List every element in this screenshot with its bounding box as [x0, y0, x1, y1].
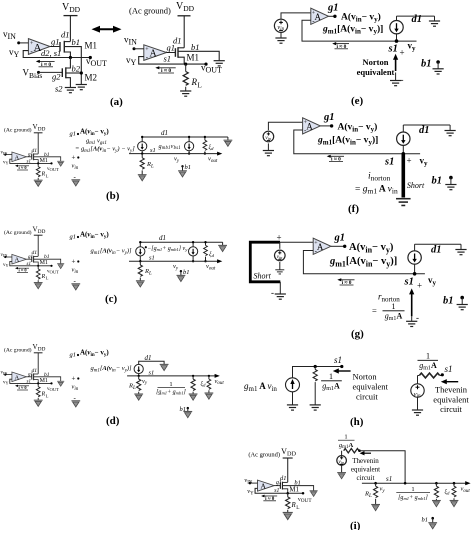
wire resistor to s1 rail — [360, 451, 406, 484]
svg-text:A: A — [306, 121, 313, 131]
M2 transistor — [62, 67, 66, 78]
svg-text:vin: vin — [338, 459, 344, 465]
svg-text:d2, s1: d2, s1 — [41, 48, 61, 58]
cs bottom wire and ground — [292, 392, 294, 405]
svg-text:1: 1 — [169, 381, 172, 388]
svg-text:circuit: circuit — [440, 404, 462, 414]
mini follower circuit — [1, 226, 65, 289]
svg-text:equivalent: equivalent — [351, 466, 380, 474]
svg-text:(i): (i) — [350, 520, 361, 530]
mini follower circuit — [1, 343, 65, 406]
ground below arrow — [395, 73, 397, 81]
VDD supply bar — [64, 15, 78, 17]
svg-text:(b): (b) — [106, 190, 120, 202]
output node dot — [320, 125, 331, 127]
1/(gm1+gmb1) resistor — [192, 375, 194, 377]
svg-text:b1: b1 — [443, 296, 454, 307]
s1 node — [397, 40, 417, 42]
svg-text:= gm1 A vin: = gm1 A vin — [355, 185, 398, 196]
svg-text:g1: g1 — [70, 234, 77, 241]
current source — [408, 251, 421, 264]
source ground — [280, 32, 282, 38]
s1 node dot — [413, 272, 417, 276]
svg-text:d1: d1 — [173, 36, 182, 46]
vin bottom lead and ground — [279, 262, 281, 270]
svg-text:+: + — [72, 375, 76, 383]
RL resistor — [141, 152, 143, 154]
svg-text:Thevenin: Thevenin — [352, 457, 379, 465]
svg-text:i ≈ 0: i ≈ 0 — [342, 280, 352, 286]
s1 node dot — [402, 152, 406, 156]
current source gm1+gmb1 — [192, 242, 194, 247]
feedback wire from minus input to s1 rail — [23, 51, 90, 58]
svg-text:+: + — [145, 47, 149, 53]
svg-text:b1: b1 — [421, 59, 432, 70]
svg-text:s1: s1 — [445, 364, 453, 374]
RL resistor — [138, 375, 140, 377]
gate wire — [50, 46, 60, 48]
svg-text:(g): (g) — [351, 328, 364, 340]
RL resistor — [185, 64, 187, 71]
svg-text:d1: d1 — [61, 30, 70, 40]
i=0 arrow — [339, 279, 355, 281]
b1 node — [431, 517, 434, 520]
svg-text:d1: d1 — [159, 234, 166, 242]
Norton arrow — [337, 370, 351, 372]
svg-text:g1: g1 — [70, 352, 77, 359]
svg-text:d1: d1 — [419, 125, 430, 136]
Norton arrow — [395, 58, 397, 71]
-[gm1+gmb1]vy label — [145, 246, 147, 248]
1/(gm1+gmb1) resistor — [435, 482, 438, 485]
svg-text:s1: s1 — [149, 369, 155, 376]
svg-text:-: - — [271, 288, 274, 298]
M1 transistor — [175, 47, 178, 58]
mini follower circuit — [244, 447, 317, 520]
svg-text:inorton: inorton — [368, 172, 390, 183]
s2 ground — [65, 88, 76, 93]
svg-text:g1: g1 — [70, 131, 77, 138]
d1 rail — [140, 241, 222, 243]
svg-text:s1: s1 — [164, 54, 172, 64]
svg-text:b1: b1 — [191, 42, 200, 52]
i=0 arrow — [334, 43, 350, 45]
svg-text:g1: g1 — [334, 233, 346, 244]
s1 junction dot — [184, 63, 187, 66]
svg-text:i ≈ 0: i ≈ 0 — [331, 157, 341, 163]
svg-text:1: 1 — [426, 352, 430, 361]
node dots — [314, 365, 317, 368]
svg-text:1: 1 — [411, 486, 414, 493]
ro1 resistor — [453, 482, 456, 485]
svg-text:M2: M2 — [85, 73, 98, 83]
VDD wire — [183, 16, 185, 48]
resistor ground — [310, 405, 321, 410]
vin source — [275, 250, 286, 261]
svg-text:(h): (h) — [350, 416, 364, 428]
svg-text:s1: s1 — [149, 255, 155, 262]
svg-text:equivalent: equivalent — [433, 395, 469, 405]
output node dot — [329, 15, 335, 17]
wire vIN to op-amp — [134, 48, 144, 50]
source ground — [417, 397, 419, 410]
svg-text:M1: M1 — [187, 53, 200, 63]
svg-text:s2: s2 — [55, 84, 63, 94]
svg-text:+: + — [72, 154, 76, 162]
svg-text:[gm1+ gmb1]: [gm1+ gmb1] — [398, 495, 428, 501]
feedback wire — [302, 20, 397, 41]
ro1 resistor — [205, 242, 207, 245]
d1 rail ground — [227, 137, 229, 140]
svg-text:1: 1 — [392, 302, 396, 311]
svg-text:vin: vin — [277, 254, 283, 260]
svg-text:L: L — [198, 82, 202, 90]
Thevenin arrow — [445, 381, 458, 383]
svg-text:Short: Short — [254, 272, 272, 281]
vOUT node dot — [204, 63, 207, 66]
current source gm1 — [134, 364, 143, 373]
svg-text:s1: s1 — [384, 157, 394, 168]
svg-text:(d): (d) — [106, 415, 120, 427]
source ground — [267, 143, 269, 150]
short thick wire — [401, 154, 405, 198]
svg-text:-: - — [401, 75, 404, 85]
feedback wire — [139, 57, 206, 65]
d1 wire from source to ground — [139, 361, 164, 364]
d1 wire to ground — [415, 243, 461, 245]
svg-text:d1: d1 — [412, 14, 423, 25]
svg-text:i ≈ 0: i ≈ 0 — [41, 62, 51, 68]
vin source — [274, 19, 287, 32]
d1 rail — [142, 136, 228, 138]
RL ground — [180, 91, 191, 96]
svg-text:s1: s1 — [404, 277, 414, 288]
svg-text:+: + — [417, 281, 422, 291]
wire top node to op-amp — [280, 241, 313, 243]
svg-text:b1: b1 — [432, 176, 443, 187]
svg-text:M1: M1 — [85, 41, 98, 51]
svg-text:d1: d1 — [161, 129, 168, 137]
svg-text:+: + — [72, 258, 76, 266]
b1 node — [187, 407, 189, 409]
svg-text:−[gm1+ gmb1] vy: −[gm1+ gmb1] vy — [147, 246, 188, 252]
output node dot — [331, 245, 345, 247]
current source gmb1 — [188, 137, 190, 142]
svg-text:vin: vin — [265, 135, 271, 141]
svg-text:R: R — [191, 77, 198, 87]
vin top lead — [279, 242, 281, 249]
resistor 1/(gm1 A) — [314, 367, 316, 370]
horizontal resistor — [344, 449, 359, 453]
b1 node — [180, 270, 182, 272]
ro1 resistor — [204, 137, 206, 140]
svg-text:g1: g1 — [323, 112, 335, 123]
svg-text:s1: s1 — [388, 44, 398, 55]
s1 rail with vout arrow — [129, 260, 218, 262]
svg-text:Thevenin: Thevenin — [435, 385, 468, 395]
svg-text:equivalent: equivalent — [353, 382, 389, 392]
svg-text:circuit: circuit — [356, 392, 378, 402]
op-amp A — [313, 238, 331, 254]
svg-text:1: 1 — [344, 434, 347, 441]
source top lead — [341, 451, 343, 456]
d1 rail ground — [222, 242, 224, 245]
svg-text:Short: Short — [407, 181, 425, 190]
svg-text:b1: b1 — [72, 37, 81, 47]
s1 rail with vout arrow — [129, 153, 218, 155]
b2 junction dot — [80, 71, 83, 74]
b1 node — [181, 165, 183, 167]
ground below arrow — [411, 316, 413, 321]
svg-text:(a): (a) — [110, 96, 123, 108]
VBias wire to g2 — [39, 71, 63, 73]
horizontal resistor — [418, 375, 420, 377]
current source gm1 — [141, 137, 143, 142]
svg-text:A: A — [150, 49, 158, 60]
source top lead — [417, 376, 419, 384]
Thevenin arrow — [363, 452, 371, 454]
vin source — [263, 131, 274, 142]
svg-text:=: = — [372, 306, 377, 316]
ro1 resistor — [208, 375, 210, 377]
svg-text:g1: g1 — [51, 37, 60, 47]
svg-text:s1: s1 — [334, 355, 342, 365]
svg-text:i ≈ 0: i ≈ 0 — [337, 44, 347, 50]
svg-text:(c): (c) — [105, 293, 118, 305]
svg-text:d1: d1 — [431, 245, 442, 256]
svg-text:A: A — [315, 12, 322, 22]
wire loop bottom to ground — [279, 282, 281, 294]
svg-text:equivalent: equivalent — [357, 67, 395, 77]
svg-text:b1: b1 — [185, 164, 192, 171]
i=0 arrow — [328, 155, 344, 157]
svg-text:Norton: Norton — [353, 372, 378, 382]
b1 ground — [214, 61, 225, 66]
svg-text:Norton: Norton — [363, 57, 389, 67]
d1 wire to ground — [403, 124, 450, 126]
VDD supply bar — [178, 15, 191, 17]
thick short loop — [250, 242, 280, 282]
op-amp A — [144, 45, 167, 61]
wire vIN to op-amp — [19, 42, 29, 44]
RL resistor — [374, 482, 377, 485]
current source — [397, 132, 410, 145]
VDD wire to M1 drain — [69, 16, 71, 42]
svg-text:+: + — [407, 156, 412, 166]
wire source to op-amp — [281, 13, 311, 19]
input ground — [71, 401, 80, 407]
d1 wire to ground — [397, 15, 435, 17]
svg-text:b1: b1 — [422, 517, 429, 524]
vOUT node dot — [89, 56, 92, 59]
s1 rail junction dot — [69, 56, 72, 59]
svg-text:+: + — [312, 10, 316, 16]
svg-text:+: + — [400, 48, 405, 58]
svg-text:circuit: circuit — [357, 474, 375, 482]
svg-text:g1: g1 — [327, 3, 339, 14]
i=0 arrow — [37, 60, 55, 62]
s1 rail with vout arrow — [127, 375, 215, 377]
vin source — [411, 384, 424, 397]
op-amp A — [303, 118, 321, 134]
s1 node dot — [441, 373, 444, 376]
i=0 arrow — [157, 67, 176, 69]
current source gm1 — [139, 242, 141, 247]
M1 transistor — [60, 41, 64, 53]
mini follower circuit — [1, 123, 65, 186]
gate wire — [167, 52, 176, 54]
svg-text:g2: g2 — [52, 72, 61, 82]
double arrow between circuits — [92, 26, 122, 33]
wire source to op-amp — [268, 122, 302, 130]
current source — [390, 21, 403, 34]
svg-text:+: + — [277, 233, 282, 243]
svg-text:1: 1 — [329, 372, 333, 381]
svg-text:[gm1+ gmb1]: [gm1+ gmb1] — [156, 390, 186, 396]
svg-text:i ≈ 0: i ≈ 0 — [161, 68, 171, 74]
vin source — [337, 456, 347, 466]
s1 rail with vout arrow — [362, 482, 466, 484]
feedback wire — [303, 251, 425, 274]
op-amp A — [28, 39, 50, 55]
input ground — [71, 180, 80, 186]
svg-text:(e): (e) — [351, 95, 364, 107]
current source up — [286, 378, 300, 392]
input ground — [71, 284, 80, 290]
svg-text:s1: s1 — [150, 147, 156, 154]
vIN node dot — [17, 41, 20, 44]
vIN node dot — [133, 47, 136, 50]
source ground — [341, 465, 343, 473]
r norton arrow — [411, 293, 413, 317]
ground below short — [396, 199, 411, 206]
svg-text:d1: d1 — [145, 354, 152, 362]
b wire ground — [76, 85, 87, 90]
RL resistor — [139, 260, 141, 262]
VBias node dot — [37, 71, 40, 74]
svg-text:(Ac ground): (Ac ground) — [129, 6, 171, 16]
svg-text:(f): (f) — [348, 203, 359, 215]
svg-text:b2: b2 — [72, 64, 81, 74]
bottom ground — [275, 294, 286, 299]
op-amp A — [311, 8, 329, 24]
svg-text:s1: s1 — [386, 475, 392, 483]
feedback wire — [294, 130, 420, 154]
svg-text:A: A — [317, 242, 324, 252]
top wire — [293, 367, 342, 378]
